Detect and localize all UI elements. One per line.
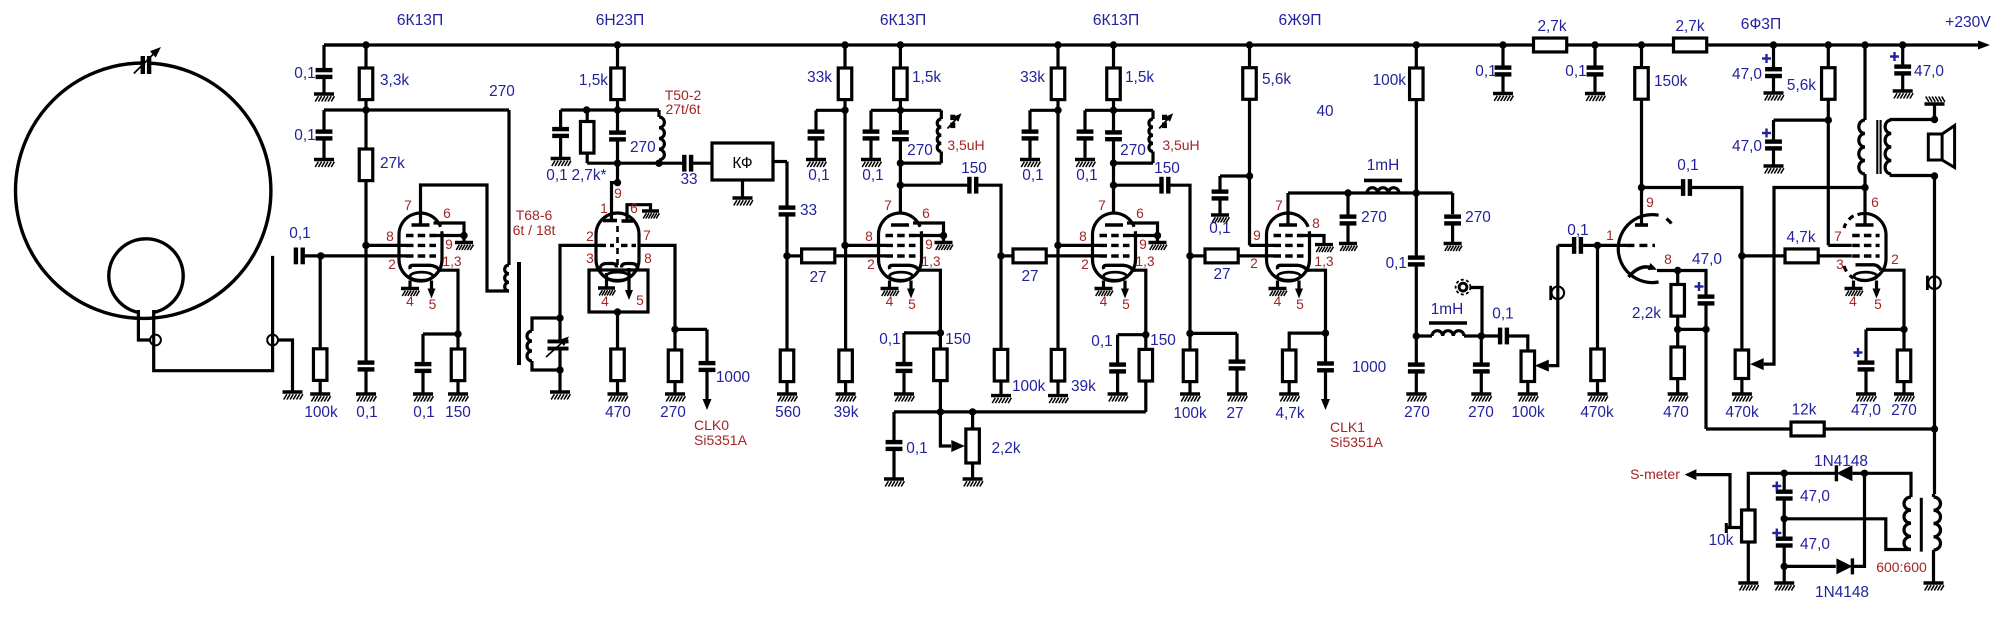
ground resistor	[1668, 394, 1688, 402]
wire stage2 tank bottom row	[587, 162, 683, 165]
svg-text:6: 6	[1136, 206, 1144, 221]
svg-text:9: 9	[1139, 237, 1147, 252]
wire tube5 pin8 ground	[1304, 236, 1325, 245]
svg-text:1mH: 1mH	[1431, 301, 1464, 318]
svg-text:3: 3	[586, 251, 594, 266]
svg-text:0,1: 0,1	[294, 127, 315, 144]
resistor 3,3k	[364, 45, 367, 68]
svg-text:8: 8	[865, 229, 873, 244]
resistor 470 tube2 cathode	[616, 312, 619, 349]
inductor 3,5uH stage3	[940, 110, 943, 119]
ground resistor	[1894, 394, 1914, 402]
svg-text:10k: 10k	[1709, 532, 1734, 549]
trimmer capacitor stage4	[1162, 115, 1167, 128]
wire feedback line	[1704, 329, 1707, 429]
ground cap	[806, 160, 826, 168]
inductor T68-6 primary	[505, 265, 509, 291]
svg-text:27k: 27k	[380, 155, 405, 172]
node AGC row stage4	[1054, 242, 1061, 249]
ground cap	[861, 160, 881, 168]
svg-text:0,1: 0,1	[1475, 63, 1496, 80]
svg-text:6Н23П: 6Н23П	[596, 12, 645, 29]
svg-text:0,1: 0,1	[808, 167, 829, 184]
resistor 150k triode plate load	[1640, 45, 1643, 68]
svg-text:4: 4	[886, 294, 894, 309]
capacitor 0,1 plate bypass stage3	[869, 110, 872, 129]
wire T68-6 secondary loop	[532, 318, 560, 331]
svg-text:5: 5	[1296, 297, 1304, 312]
ground cap	[1108, 394, 1128, 402]
capacitor 47,0 screen bypass	[1772, 120, 1775, 140]
wiper 100k pot	[1535, 360, 1549, 372]
svg-text:3,3k: 3,3k	[380, 72, 409, 89]
node screen feed stage1	[362, 106, 369, 113]
resistor 33k stage3	[843, 45, 846, 68]
svg-text:470k: 470k	[1580, 404, 1614, 421]
svg-text:CLK1: CLK1	[1330, 419, 1365, 435]
svg-text:2: 2	[867, 257, 875, 272]
resistor 4,7k tube5 cathode	[1289, 333, 1325, 350]
wire 270 screen line down to T68-6	[507, 110, 510, 265]
capacitor 0,1 tube4 cathode	[1116, 335, 1119, 363]
svg-text:6: 6	[1871, 195, 1879, 210]
svg-text:0,1: 0,1	[546, 167, 567, 184]
svg-text:2: 2	[586, 229, 594, 244]
svg-text:7: 7	[643, 228, 651, 243]
variable capacitor T68-6 secondary	[558, 318, 561, 341]
wire to bypass cap	[1030, 109, 1058, 112]
svg-text:100k: 100k	[1173, 405, 1207, 422]
node box bottom	[614, 308, 621, 315]
wire anode chain stage4	[1112, 110, 1115, 131]
svg-text:6К13П: 6К13П	[397, 12, 443, 29]
svg-text:9: 9	[1646, 195, 1654, 210]
tube V3 pins 4 5	[888, 281, 891, 289]
resistor 470 triode cathode	[1676, 329, 1679, 347]
svg-text:270: 270	[660, 404, 686, 421]
svg-text:100k: 100k	[1511, 404, 1545, 421]
svg-text:5: 5	[908, 297, 916, 312]
capacitor 1000 CLK1	[1324, 333, 1327, 361]
resistor 33k stage4	[1056, 45, 1059, 68]
svg-text:39k: 39k	[1071, 378, 1096, 395]
svg-text:470k: 470k	[1725, 404, 1759, 421]
resistor 27 stage4 grid stopper	[1001, 254, 1013, 257]
ground antenna input	[283, 392, 303, 400]
node 2,2k top	[969, 408, 976, 415]
svg-text:5,6k: 5,6k	[1787, 77, 1816, 94]
svg-text:4: 4	[1100, 294, 1108, 309]
wire tube1 anode to T68-6 primary	[421, 185, 510, 291]
svg-text:2: 2	[1250, 256, 1258, 271]
svg-text:6: 6	[922, 206, 930, 221]
wire AGC row to tube1	[366, 244, 406, 247]
svg-text:150: 150	[445, 404, 471, 421]
inductor output transformer secondary	[1885, 120, 1891, 174]
ground tube3 pin9	[935, 243, 953, 251]
ground cap	[551, 159, 571, 167]
inductor output transformer primary	[1863, 45, 1866, 120]
ground resistor	[665, 394, 685, 402]
svg-text:1000: 1000	[716, 369, 750, 386]
svg-text:8: 8	[386, 229, 394, 244]
wiper bar 10k	[1725, 523, 1728, 533]
ground cap	[1764, 93, 1784, 101]
capacitor 33 to KF	[693, 162, 712, 165]
ground doubler	[1774, 583, 1794, 591]
svg-text:150: 150	[945, 331, 971, 348]
node rail 5,6k stage5	[1246, 41, 1253, 48]
ground cap	[1893, 91, 1913, 99]
connector jack speaker line	[1928, 276, 1941, 289]
node choke right	[1413, 189, 1420, 196]
wire tank top	[1085, 109, 1153, 112]
wire tube3 pin6 to ground	[913, 223, 944, 236]
trimmer capacitor stage3	[950, 115, 955, 128]
node rail 5,6k output screen	[1825, 41, 1832, 48]
resistor 27k	[364, 110, 367, 149]
svg-text:+230V: +230V	[1945, 14, 1991, 31]
ground resistor	[448, 394, 468, 402]
svg-text:9: 9	[1253, 228, 1261, 243]
inductor T68-6 secondary	[527, 331, 532, 361]
tube V4 pins 4 5	[1102, 281, 1105, 289]
tube V6b cathode	[1856, 265, 1882, 270]
svg-text:0,1: 0,1	[356, 404, 377, 421]
svg-text:1,5k: 1,5k	[1125, 69, 1154, 86]
wire to 47,0 screen cap	[1774, 118, 1829, 121]
ground cap	[884, 479, 904, 487]
resistor 2,2k triode cathode	[1676, 271, 1679, 285]
node tank top stage3	[897, 107, 904, 114]
ground cap	[1764, 166, 1784, 174]
capacitor 0,1 AGC stage4	[1028, 110, 1031, 129]
node doubler bottom	[1781, 563, 1788, 570]
wire to 27 cap	[1190, 332, 1237, 335]
svg-text:6t / 18t: 6t / 18t	[513, 222, 556, 238]
node rail 33k stage4	[1054, 41, 1061, 48]
svg-text:12k: 12k	[1792, 402, 1817, 419]
svg-text:7: 7	[1834, 229, 1842, 244]
svg-text:150: 150	[1150, 332, 1176, 349]
svg-text:6Ж9П: 6Ж9П	[1279, 12, 1322, 29]
svg-text:1,3: 1,3	[1314, 254, 1334, 269]
svg-text:8: 8	[644, 251, 652, 266]
ground cap	[1856, 394, 1876, 402]
svg-text:5: 5	[429, 297, 437, 312]
wire to tube1 grid	[321, 254, 406, 257]
wire tank bottom stage4	[1114, 162, 1154, 165]
inductor 1mH detector choke	[1416, 334, 1432, 337]
svg-text:270: 270	[1404, 404, 1430, 421]
tube V5 pins 4 5	[1276, 281, 1279, 289]
loop antenna main loop	[16, 63, 271, 318]
node 150 bottom	[937, 408, 944, 415]
svg-text:0,1: 0,1	[1022, 167, 1043, 184]
node KF output to grid	[783, 252, 790, 259]
tube V6a grid	[1626, 244, 1655, 247]
node stage5 grid bottom	[1186, 330, 1193, 337]
node 2,7k top	[583, 106, 590, 113]
ground cap	[1406, 394, 1426, 402]
svg-text:1mH: 1mH	[1367, 157, 1400, 174]
wire coupling to stage4 grid	[978, 185, 1001, 256]
svg-text:Si5351A: Si5351A	[1330, 434, 1384, 450]
ground resistor	[1048, 396, 1068, 404]
wire to transformer left top	[1865, 473, 1912, 497]
node speaker top	[1931, 116, 1938, 123]
svg-text:1: 1	[1606, 228, 1614, 243]
coupling loop	[109, 239, 183, 313]
node tank top stage4	[1110, 107, 1117, 114]
resistor 39k stage4	[1056, 245, 1059, 349]
wire KF output	[773, 160, 787, 163]
tube V3 6К13П pentode	[879, 213, 922, 281]
svg-text:4: 4	[1274, 294, 1282, 309]
resistor 150 tube3 cathode	[939, 333, 942, 349]
svg-text:3,5uH: 3,5uH	[947, 137, 984, 153]
speaker	[1928, 134, 1942, 160]
wire tube5 cathode	[1310, 270, 1326, 333]
wire stage2 node row	[561, 108, 659, 111]
svg-text:0,1: 0,1	[906, 440, 927, 457]
svg-text:33: 33	[800, 202, 817, 219]
svg-text:27: 27	[1213, 266, 1230, 283]
ground speaker top	[1933, 104, 1936, 120]
resistor 270 output cathode	[1902, 329, 1905, 350]
tube V2 anode bar 2 and pin6 ground	[622, 219, 634, 223]
node tank bottom stage3	[897, 159, 904, 166]
node diode junction	[1861, 470, 1868, 477]
inductor 600:600 right winding	[1934, 497, 1941, 550]
node 33k bottom	[841, 107, 848, 114]
ground resistor	[777, 394, 797, 402]
svg-text:4: 4	[1849, 294, 1857, 309]
svg-text:1N4148: 1N4148	[1815, 584, 1869, 601]
core 600:600	[1920, 498, 1923, 552]
node screen bypass tap	[1246, 172, 1253, 179]
svg-text:1N4148: 1N4148	[1814, 453, 1868, 470]
svg-text:9: 9	[614, 186, 622, 201]
svg-text:47,0: 47,0	[1732, 138, 1762, 155]
wire tube2 pin7 output	[639, 245, 675, 329]
ground cap	[314, 160, 334, 168]
wire AGC down to grid row	[843, 110, 846, 245]
capacitor 47,0 doubler upper	[1783, 473, 1786, 489]
node feedback tap	[1702, 326, 1709, 333]
svg-text:3,5uH: 3,5uH	[1162, 137, 1199, 153]
capacitor 0,1 AGC bypass	[364, 245, 367, 360]
svg-text:6К13П: 6К13П	[880, 12, 926, 29]
svg-text:270: 270	[630, 139, 656, 156]
node triode cathode bottom	[1674, 326, 1681, 333]
node tube3 cathode	[937, 329, 944, 336]
ground cap	[1471, 394, 1491, 402]
svg-text:27: 27	[1226, 405, 1243, 422]
wire triode cathode	[1657, 269, 1678, 272]
capacitor 270 detector 1	[1415, 336, 1418, 363]
svg-text:S-meter: S-meter	[1630, 466, 1680, 482]
svg-text:2,2k: 2,2k	[991, 440, 1020, 457]
svg-text:0,1: 0,1	[1565, 63, 1586, 80]
svg-text:2,7k: 2,7k	[1537, 18, 1566, 35]
resistor 2,7k rail a	[1534, 38, 1567, 52]
svg-text:47,0: 47,0	[1732, 66, 1762, 83]
ground 600:600	[1924, 583, 1944, 591]
tube V5 6Ж9П pentode	[1267, 213, 1310, 281]
resistor 1,5k stage3	[899, 45, 902, 68]
capacitor 0,1 screen bypass stage1	[322, 110, 325, 130]
capacitor 0,1 rail AF a	[1501, 45, 1504, 66]
capacitor 0,1 antenna coupling	[305, 254, 321, 257]
wire AGC down	[1056, 110, 1059, 245]
resistor 12k feedback	[1824, 427, 1934, 430]
tube V2 cathode box	[589, 270, 648, 312]
resistor 100k antenna grid leak	[319, 256, 322, 349]
wire to volume pot	[1509, 336, 1528, 351]
node speaker bottom	[1931, 172, 1938, 179]
potentiometer 2,2k IF gain	[971, 412, 974, 429]
wire secondary to tube2 grid pin2	[560, 245, 603, 318]
ground pot	[1738, 583, 1758, 591]
tube V6a anode bar and lead	[1635, 223, 1648, 227]
node tube4 cathode	[1142, 331, 1149, 338]
node output grid network	[1738, 252, 1745, 259]
inductor 600:600 left winding	[1904, 497, 1911, 550]
ground cap	[1075, 160, 1095, 168]
svg-text:0,1: 0,1	[1567, 222, 1588, 239]
node tube5 cathode	[1322, 329, 1329, 336]
resistor 1,5k stage4	[1112, 45, 1115, 68]
ground resistor	[991, 396, 1011, 404]
svg-text:8: 8	[1664, 252, 1672, 267]
svg-text:6: 6	[443, 206, 451, 221]
capacitor 47,0 rail b	[1901, 45, 1904, 65]
connector RCA detector out	[1456, 280, 1471, 295]
tube V2 anode bar 1	[603, 219, 617, 223]
svg-text:5: 5	[636, 293, 644, 308]
capacitor 0,1 tube3 cathode	[902, 333, 905, 362]
wire V6b cathode out	[1881, 270, 1904, 329]
node 33k bottom stage4	[1054, 107, 1061, 114]
node stage5 grid leak	[1186, 252, 1193, 259]
node triode anode	[1638, 184, 1645, 191]
ground cap	[314, 94, 334, 102]
svg-text:5,6k: 5,6k	[1262, 71, 1291, 88]
node rail 1,5k stage4	[1110, 41, 1117, 48]
node pin6/9	[940, 232, 947, 239]
svg-text:2: 2	[1891, 252, 1899, 267]
wire coupling to stage5 grid	[1170, 185, 1190, 256]
node rail 47,0 b	[1899, 41, 1906, 48]
wire tank bottom stage3	[900, 162, 941, 165]
svg-text:150: 150	[961, 160, 987, 177]
wire to triode grid	[1583, 244, 1598, 247]
svg-text:КФ: КФ	[732, 155, 752, 172]
svg-text:270: 270	[1465, 209, 1491, 226]
node doubler mid	[1781, 515, 1788, 522]
filter KF box	[712, 143, 773, 180]
capacitor 0,1 screen bypass	[1218, 176, 1221, 190]
node secondary top	[556, 314, 563, 321]
svg-text:Т68-6: Т68-6	[516, 207, 553, 223]
resistor 1,5k stage2	[616, 45, 619, 68]
svg-text:270: 270	[1891, 402, 1917, 419]
ground pot	[1732, 394, 1752, 402]
B+ rail arrowhead	[1978, 41, 1990, 50]
svg-text:100k: 100k	[304, 404, 338, 421]
svg-text:9: 9	[925, 237, 933, 252]
wire coupling loop right stub down and cable run	[154, 256, 273, 371]
svg-text:47,0: 47,0	[1800, 488, 1830, 505]
node doubler top	[1781, 470, 1788, 477]
svg-text:2,7k: 2,7k	[1675, 18, 1704, 35]
potentiometer 100k AF gain	[1526, 382, 1529, 395]
capacitor 0,1 plate bypass stage4	[1083, 110, 1086, 129]
capacitor 270 tank stage4	[1105, 130, 1122, 141]
svg-text:33: 33	[680, 171, 697, 188]
svg-text:270: 270	[1120, 142, 1146, 159]
ground 100k	[310, 394, 330, 402]
svg-text:47,0: 47,0	[1851, 402, 1881, 419]
node coupling tap stage3	[897, 182, 904, 189]
resistor 100k stage4 grid leak	[999, 256, 1002, 350]
wire tank to tube2 anodes	[616, 163, 619, 182]
node pin6/9	[1154, 232, 1161, 239]
ground in box pin4	[605, 273, 608, 288]
wire anode to tube V6b	[1863, 188, 1866, 226]
resistor 5,6k output screen	[1827, 45, 1830, 68]
resistor 5,6k stage5 screen feed	[1248, 45, 1251, 68]
svg-text:4: 4	[406, 294, 414, 309]
svg-text:4,7k: 4,7k	[1786, 229, 1815, 246]
node anode split	[614, 179, 621, 186]
node detector filter input	[1413, 332, 1420, 339]
ground tube1 pin9	[455, 243, 473, 251]
terminal circle left	[150, 335, 161, 346]
ground cap	[1585, 94, 1605, 102]
svg-text:0,1: 0,1	[1492, 306, 1513, 323]
node rail 47,0 a	[1770, 41, 1777, 48]
svg-text:9: 9	[445, 237, 453, 252]
arrow CLK0 input	[703, 399, 712, 410]
node feedback to speaker line	[1931, 425, 1938, 432]
terminal circle right	[267, 335, 278, 346]
tube V1 pins 4 5	[408, 281, 411, 289]
tube V2 6Н23П envelope	[596, 213, 639, 281]
diode 1N4148 lower	[1784, 565, 1836, 568]
wire transformer left bottom to mid node	[1784, 519, 1911, 550]
capacitor 1000 CLK0	[675, 328, 707, 331]
svg-text:6: 6	[630, 201, 638, 216]
wire screen to tube pin7 row	[1828, 244, 1851, 247]
ground cap	[356, 394, 376, 402]
node rail 1,5k stage3	[897, 41, 904, 48]
tube V6a cathode	[1629, 267, 1653, 277]
svg-text:0,1: 0,1	[289, 225, 310, 242]
svg-text:5: 5	[1122, 297, 1130, 312]
wire to bypass cap	[816, 109, 845, 112]
svg-text:4: 4	[601, 294, 609, 309]
wire tube4 pin6 to ground	[1127, 223, 1158, 236]
capacitor 0,1 detector coupling	[1415, 193, 1418, 256]
svg-text:1,3: 1,3	[921, 254, 941, 269]
capacitor 27	[1235, 333, 1238, 359]
wire anode chain stage3	[899, 110, 902, 131]
inductor T50-2 tank coil	[616, 108, 619, 111]
svg-text:7: 7	[1275, 198, 1283, 213]
node detector filter output	[1478, 332, 1485, 339]
